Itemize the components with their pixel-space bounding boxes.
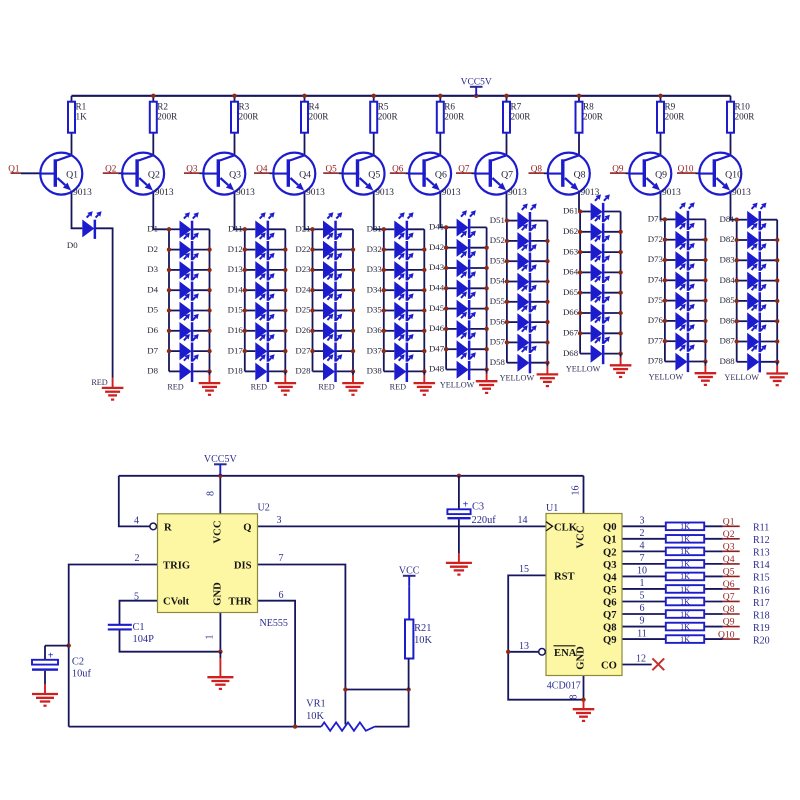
ground bbox=[446, 553, 472, 576]
pin 3 bbox=[277, 515, 282, 526]
wire bbox=[408, 310, 424, 312]
wire bbox=[193, 228, 209, 230]
junction bbox=[243, 308, 247, 312]
wire bbox=[96, 228, 113, 377]
LED D63 bbox=[563, 235, 610, 263]
junction bbox=[351, 349, 355, 353]
junction bbox=[283, 369, 287, 373]
svg-text:D87: D87 bbox=[720, 336, 736, 346]
wire bbox=[470, 348, 486, 350]
svg-text:D6: D6 bbox=[147, 325, 158, 335]
wire bbox=[439, 133, 441, 156]
svg-text:D71: D71 bbox=[648, 214, 663, 224]
junction bbox=[484, 327, 488, 331]
inversion bubble R pin bbox=[150, 523, 157, 530]
svg-text:Q5: Q5 bbox=[368, 169, 380, 180]
wire bbox=[439, 96, 441, 102]
wire bbox=[200, 172, 205, 174]
LED D32 bbox=[367, 233, 414, 261]
wire bbox=[118, 172, 123, 174]
wire bbox=[71, 96, 73, 102]
junction bbox=[243, 288, 247, 292]
wire bbox=[761, 239, 777, 241]
wire bbox=[761, 219, 777, 221]
wire bbox=[604, 353, 620, 355]
svg-text:200R: 200R bbox=[378, 112, 399, 122]
wire bbox=[169, 289, 180, 291]
wire bbox=[508, 651, 539, 653]
junction bbox=[505, 340, 509, 344]
wire bbox=[689, 218, 705, 220]
junction bbox=[775, 299, 779, 303]
LED D71 bbox=[648, 202, 695, 230]
wire bbox=[531, 220, 547, 222]
wire bbox=[193, 310, 209, 312]
wire bbox=[704, 588, 723, 590]
junction bbox=[505, 239, 509, 243]
resistor R16 bbox=[666, 585, 704, 594]
wire bbox=[284, 229, 286, 371]
svg-text:4: 4 bbox=[640, 541, 645, 552]
wire bbox=[580, 312, 591, 314]
junction bbox=[658, 94, 662, 98]
junction bbox=[545, 320, 549, 324]
svg-text:D33: D33 bbox=[367, 264, 383, 274]
svg-text:Q7: Q7 bbox=[603, 610, 617, 621]
wire bbox=[665, 279, 676, 281]
svg-text:D23: D23 bbox=[295, 264, 311, 274]
LED D64 bbox=[563, 255, 610, 283]
svg-text:D73: D73 bbox=[648, 254, 664, 264]
wire bbox=[313, 289, 324, 291]
resistor R15 bbox=[666, 572, 704, 581]
svg-text:CO: CO bbox=[601, 661, 617, 672]
LED D8 bbox=[147, 354, 199, 382]
wire bbox=[337, 330, 353, 332]
LED D81 bbox=[720, 203, 767, 231]
svg-text:VR1: VR1 bbox=[306, 699, 326, 710]
junction bbox=[735, 258, 739, 262]
wire bbox=[604, 312, 620, 314]
wire bbox=[152, 133, 154, 156]
wire bbox=[153, 191, 169, 230]
svg-text:D8: D8 bbox=[147, 366, 158, 376]
resistor R20 bbox=[666, 635, 704, 644]
wire bbox=[384, 370, 395, 372]
wire bbox=[531, 341, 547, 343]
resistor R8 bbox=[576, 101, 604, 132]
wire bbox=[169, 269, 180, 271]
svg-text:D81: D81 bbox=[720, 214, 735, 224]
LED D0 bbox=[67, 211, 102, 250]
svg-text:14: 14 bbox=[518, 515, 528, 526]
svg-text:D77: D77 bbox=[648, 335, 664, 345]
wire bbox=[736, 220, 738, 362]
junction bbox=[545, 239, 549, 243]
svg-text:D62: D62 bbox=[563, 226, 578, 236]
svg-text:1K: 1K bbox=[680, 622, 690, 631]
wire bbox=[531, 362, 547, 364]
wire bbox=[580, 332, 591, 334]
wire bbox=[193, 350, 209, 352]
svg-text:YELLOW: YELLOW bbox=[500, 374, 535, 383]
svg-text:D45: D45 bbox=[429, 303, 445, 313]
wire bbox=[696, 172, 701, 174]
label YELLOW bbox=[440, 381, 475, 390]
wire bbox=[737, 259, 748, 261]
svg-text:D27: D27 bbox=[295, 345, 311, 355]
svg-text:9013: 9013 bbox=[508, 188, 527, 198]
wire bbox=[258, 565, 346, 690]
wire bbox=[235, 191, 245, 230]
LED D88 bbox=[720, 345, 767, 373]
junction bbox=[382, 247, 386, 251]
junction bbox=[372, 94, 376, 98]
wire bbox=[408, 330, 424, 332]
junction bbox=[663, 278, 667, 282]
junction bbox=[351, 288, 355, 292]
wire bbox=[470, 328, 486, 330]
wire bbox=[408, 289, 424, 291]
label R12 bbox=[753, 535, 770, 546]
LED D72 bbox=[648, 223, 695, 251]
svg-text:2: 2 bbox=[135, 553, 140, 564]
wire bbox=[665, 300, 676, 302]
label R17 bbox=[753, 598, 770, 609]
label R18 bbox=[753, 610, 770, 621]
svg-text:200R: 200R bbox=[309, 112, 330, 122]
net label Q9 bbox=[723, 617, 740, 628]
svg-text:1K: 1K bbox=[680, 585, 690, 594]
wire bbox=[622, 525, 666, 527]
net label Q8 bbox=[723, 604, 740, 615]
wire bbox=[776, 220, 778, 362]
svg-text:R19: R19 bbox=[753, 623, 770, 634]
wire bbox=[761, 259, 777, 261]
ground bbox=[207, 652, 233, 690]
wire bbox=[245, 289, 256, 291]
wire bbox=[219, 613, 221, 652]
wire bbox=[337, 289, 353, 291]
svg-text:C3: C3 bbox=[472, 501, 484, 512]
svg-text:7: 7 bbox=[640, 553, 645, 564]
wire bbox=[71, 133, 73, 156]
wire bbox=[506, 96, 508, 102]
LED D16 bbox=[228, 314, 275, 342]
wire bbox=[470, 369, 486, 371]
ground bbox=[342, 371, 364, 396]
wire bbox=[704, 525, 723, 527]
wire bbox=[69, 565, 158, 727]
resistor R2 bbox=[150, 101, 178, 132]
svg-text:D74: D74 bbox=[648, 275, 664, 285]
svg-text:Q4: Q4 bbox=[256, 163, 268, 173]
wire bbox=[373, 96, 375, 102]
wire bbox=[405, 172, 410, 174]
pin 7 bbox=[640, 553, 645, 564]
junction bbox=[151, 94, 155, 98]
pin 15 bbox=[519, 564, 529, 575]
junction bbox=[578, 250, 582, 254]
junction bbox=[578, 291, 582, 295]
label 4CD017 bbox=[547, 681, 581, 692]
wire bbox=[604, 211, 620, 213]
ground bbox=[414, 371, 436, 396]
svg-text:D37: D37 bbox=[367, 345, 383, 355]
junction bbox=[302, 94, 306, 98]
svg-text:Q1: Q1 bbox=[8, 163, 20, 173]
junction bbox=[218, 474, 222, 478]
LED D43 bbox=[429, 251, 476, 279]
junction bbox=[703, 319, 707, 323]
junction bbox=[775, 238, 779, 242]
wire bbox=[446, 369, 457, 371]
svg-text:8: 8 bbox=[569, 695, 580, 700]
wire bbox=[761, 280, 777, 282]
svg-text:D88: D88 bbox=[720, 356, 736, 366]
wire bbox=[245, 350, 256, 352]
wire bbox=[507, 341, 518, 343]
junction bbox=[207, 329, 211, 333]
svg-text:D65: D65 bbox=[563, 287, 579, 297]
junction bbox=[735, 299, 739, 303]
wire bbox=[704, 638, 723, 640]
LED D27 bbox=[295, 334, 342, 362]
wire bbox=[339, 172, 344, 174]
wire bbox=[660, 96, 662, 102]
svg-text:1: 1 bbox=[640, 578, 645, 589]
junction bbox=[283, 288, 287, 292]
LED D82 bbox=[720, 223, 767, 251]
wire bbox=[704, 219, 706, 361]
wire bbox=[337, 370, 353, 372]
wire bbox=[689, 279, 705, 281]
junction bbox=[577, 94, 581, 98]
transistor Q1 bbox=[40, 153, 92, 198]
wire bbox=[665, 239, 676, 241]
svg-text:16: 16 bbox=[571, 486, 582, 496]
junction bbox=[663, 298, 667, 302]
junction bbox=[578, 270, 582, 274]
svg-text:VCC: VCC bbox=[576, 526, 587, 549]
wire bbox=[269, 330, 285, 332]
LED D75 bbox=[648, 284, 695, 312]
label YELLOW bbox=[649, 373, 684, 382]
svg-text:200R: 200R bbox=[157, 112, 178, 122]
svg-text:RED: RED bbox=[318, 382, 334, 391]
junction bbox=[343, 687, 347, 691]
potentiometer VR1 bbox=[306, 699, 375, 731]
wire bbox=[440, 191, 446, 228]
junction bbox=[382, 268, 386, 272]
net label Q10 bbox=[677, 163, 696, 173]
junction bbox=[735, 339, 739, 343]
svg-text:11: 11 bbox=[637, 628, 647, 639]
LED D38 bbox=[367, 354, 414, 382]
wire bbox=[730, 96, 732, 102]
pin 14 bbox=[518, 515, 528, 526]
junction bbox=[545, 279, 549, 283]
wire bbox=[408, 228, 424, 230]
junction bbox=[422, 349, 426, 353]
net label Q4 bbox=[254, 163, 270, 173]
pin 12 bbox=[636, 653, 646, 664]
wire bbox=[546, 221, 548, 363]
svg-text:U2: U2 bbox=[258, 503, 270, 514]
LED D61 bbox=[563, 194, 610, 222]
svg-text:R20: R20 bbox=[753, 635, 770, 646]
wire bbox=[704, 550, 723, 552]
LED D52 bbox=[490, 224, 537, 252]
power symbol VCC bbox=[399, 566, 420, 587]
junction bbox=[484, 266, 488, 270]
pin 4 bbox=[134, 516, 139, 527]
power symbol VCC5V bbox=[204, 454, 238, 476]
wire bbox=[661, 191, 665, 220]
wire bbox=[507, 281, 518, 283]
wire bbox=[234, 96, 236, 102]
junction bbox=[444, 246, 448, 250]
wire bbox=[446, 287, 457, 289]
LED D14 bbox=[228, 273, 275, 301]
wire bbox=[72, 191, 83, 229]
svg-text:R5: R5 bbox=[378, 101, 389, 111]
label RED bbox=[167, 382, 183, 391]
ground bbox=[275, 371, 297, 396]
junction bbox=[506, 650, 510, 654]
resistor R11 bbox=[666, 522, 704, 531]
label YELLOW bbox=[500, 374, 535, 383]
wire bbox=[506, 191, 508, 221]
LED D31 bbox=[367, 212, 414, 240]
net label Q5 bbox=[323, 163, 339, 173]
wire bbox=[269, 249, 285, 251]
svg-text:D11: D11 bbox=[228, 224, 243, 234]
wire bbox=[245, 249, 256, 251]
junction bbox=[578, 230, 582, 234]
no-connect cross bbox=[652, 658, 664, 670]
junction bbox=[422, 308, 426, 312]
LED D18 bbox=[228, 354, 275, 382]
wire bbox=[665, 320, 676, 322]
wire bbox=[21, 172, 41, 174]
wire bbox=[423, 229, 425, 371]
LED D73 bbox=[648, 243, 695, 271]
svg-text:GND: GND bbox=[576, 646, 587, 670]
svg-text:D47: D47 bbox=[429, 343, 445, 353]
LED D65 bbox=[563, 276, 610, 304]
svg-text:D72: D72 bbox=[648, 234, 663, 244]
wire bbox=[337, 249, 353, 251]
resistor R21 bbox=[405, 587, 432, 690]
ground bbox=[610, 354, 632, 379]
svg-text:9: 9 bbox=[640, 616, 645, 627]
LED D54 bbox=[490, 264, 537, 292]
wire bbox=[578, 191, 580, 212]
resistor R1 bbox=[68, 101, 87, 132]
junction bbox=[310, 329, 314, 333]
junction bbox=[663, 238, 667, 242]
svg-text:D48: D48 bbox=[429, 364, 445, 374]
LED D86 bbox=[720, 304, 767, 332]
junction bbox=[243, 247, 247, 251]
junction bbox=[243, 349, 247, 353]
junction bbox=[444, 266, 448, 270]
LED D36 bbox=[367, 314, 414, 342]
svg-text:DIS: DIS bbox=[234, 560, 252, 571]
LED D47 bbox=[429, 332, 476, 360]
svg-text:D46: D46 bbox=[429, 323, 445, 333]
LED D57 bbox=[490, 325, 537, 353]
wire bbox=[269, 350, 285, 352]
label U1 bbox=[546, 503, 558, 514]
resistor R4 bbox=[301, 101, 329, 132]
wire bbox=[383, 229, 385, 371]
net label Q7 bbox=[456, 163, 472, 173]
wire bbox=[470, 247, 486, 249]
junction bbox=[422, 268, 426, 272]
wire bbox=[580, 353, 591, 355]
junction bbox=[382, 288, 386, 292]
junction bbox=[484, 306, 488, 310]
svg-text:Q4: Q4 bbox=[603, 572, 617, 583]
LED D37 bbox=[367, 334, 414, 362]
svg-text:9013: 9013 bbox=[375, 188, 394, 198]
junction bbox=[167, 349, 171, 353]
svg-text:C2: C2 bbox=[72, 656, 84, 667]
wire bbox=[578, 96, 580, 102]
svg-text:D25: D25 bbox=[295, 305, 311, 315]
label R20 bbox=[753, 635, 770, 646]
junction bbox=[703, 278, 707, 282]
wire bbox=[269, 228, 285, 230]
junction bbox=[283, 247, 287, 251]
wire bbox=[245, 370, 256, 372]
junction bbox=[775, 319, 779, 323]
wire bbox=[472, 172, 477, 174]
junction bbox=[703, 238, 707, 242]
LED D48 bbox=[429, 352, 476, 380]
wire bbox=[169, 330, 180, 332]
transistor Q9 bbox=[629, 153, 681, 198]
resistor R12 bbox=[666, 535, 704, 544]
pin 8 bbox=[206, 491, 217, 496]
wire bbox=[312, 229, 314, 371]
junction bbox=[663, 319, 667, 323]
junction bbox=[484, 246, 488, 250]
svg-text:9013: 9013 bbox=[442, 188, 461, 198]
net label Q3 bbox=[723, 542, 740, 553]
svg-text:YELLOW: YELLOW bbox=[649, 373, 684, 382]
junction bbox=[310, 268, 314, 272]
junction bbox=[444, 225, 448, 229]
wire bbox=[408, 350, 424, 352]
wire bbox=[345, 689, 408, 691]
LED D13 bbox=[228, 253, 275, 281]
pin 3 bbox=[640, 516, 645, 527]
wire bbox=[270, 172, 275, 174]
pin 1 bbox=[205, 635, 216, 640]
wire bbox=[384, 330, 395, 332]
junction bbox=[505, 218, 509, 222]
transistor Q3 bbox=[203, 153, 255, 198]
junction bbox=[775, 278, 779, 282]
svg-text:10K: 10K bbox=[414, 635, 432, 646]
pin 7 bbox=[279, 553, 284, 564]
svg-text:Q6: Q6 bbox=[435, 169, 447, 180]
svg-text:4: 4 bbox=[134, 516, 139, 527]
junction bbox=[618, 291, 622, 295]
